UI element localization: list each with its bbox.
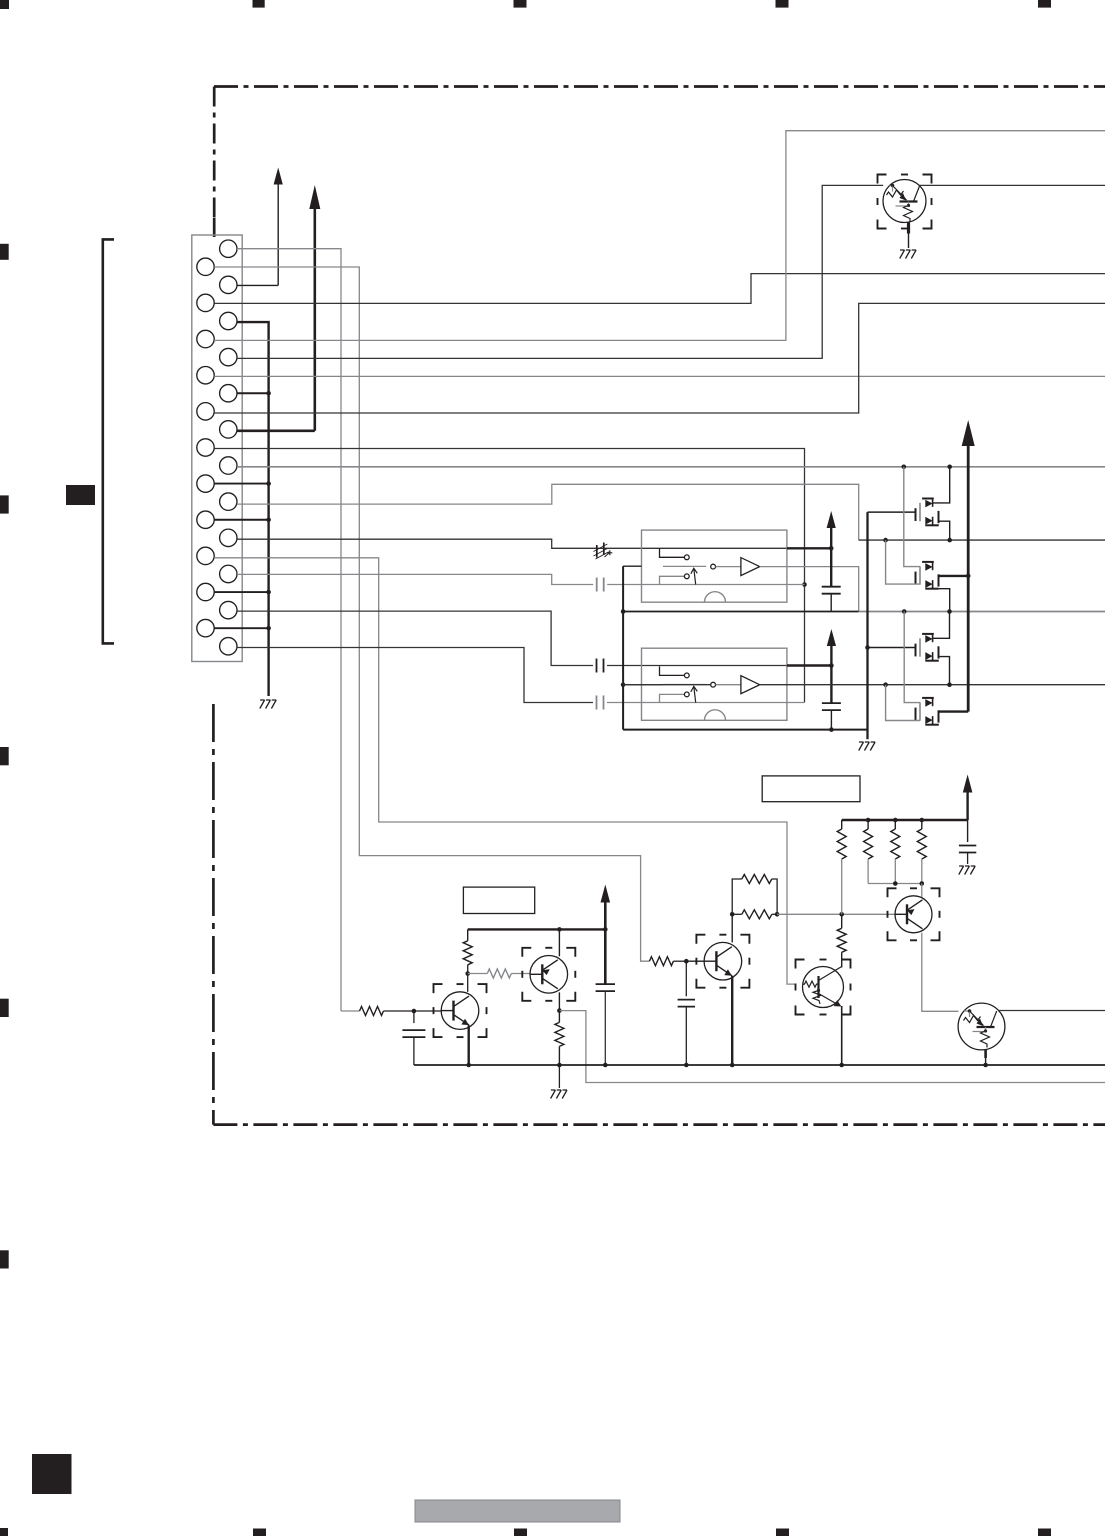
capacitor C11 on pin19 wire — [597, 578, 604, 592]
Q3 collector junction — [557, 992, 562, 1013]
feedback resistor R26 (upper) — [732, 875, 777, 915]
digital transistor Q1 — [883, 180, 926, 223]
busA junction dots — [902, 465, 953, 470]
trimmer capacitor CT1 on pin17 wire — [594, 543, 613, 560]
capacitor C34 beside bias rail — [959, 820, 976, 864]
Q14 upper lead from lower bus via left rail — [904, 612, 920, 703]
relay block bottom rail — [623, 729, 867, 731]
Q1 bracket — [878, 175, 932, 229]
resistor R28 (bias 1) — [837, 820, 846, 859]
wire pin2 to R24 path — [214, 267, 649, 961]
page registration mark top 3 — [514, 0, 527, 8]
page registration mark top-left corner — [0, 0, 9, 9]
supply arrow above RL2 output — [827, 629, 836, 703]
R28 lead down to R27 node — [841, 859, 843, 914]
ground symbol below Q1 — [900, 250, 916, 259]
Q12 lower-left lead from mid rail — [886, 540, 920, 584]
bias rail (thick) with supply arrow — [842, 775, 973, 823]
capacitor C22 on pin23 wire — [597, 696, 604, 710]
wire pin4 to right edge — [214, 274, 1105, 304]
Q4 emitter to ground rail (thick) — [730, 976, 735, 1067]
Q2 bracket — [434, 984, 487, 1037]
RL2 supply output segment (thick) — [787, 664, 832, 666]
Q11 gate lead — [868, 511, 916, 513]
H-bridge mid rail 2 to right edge — [623, 682, 1105, 687]
supply arrow above RL1 output — [827, 511, 836, 587]
assembly boundary frame left edge upper — [213, 87, 216, 238]
resistor R21 on pin1 wire — [341, 1007, 416, 1016]
wire pin13 H-bridge upper supply bus — [237, 466, 1105, 468]
transistor Q6 (PNP) — [895, 896, 932, 933]
wire pin8 to right edge — [214, 375, 1105, 377]
wire R21 junction to Q2 base — [414, 1010, 441, 1012]
Q1 collector wire to right edge — [919, 184, 1105, 186]
resistor R30 (bias 3) — [891, 820, 900, 884]
gray footer label bar — [415, 1500, 620, 1522]
resistor R31 (bias 4) — [917, 820, 926, 884]
page registration mark left 3 — [0, 747, 9, 765]
supply arrow from pin3 — [237, 168, 283, 286]
ground symbol below gate bus — [859, 742, 875, 751]
bias resistor common wire — [868, 881, 924, 897]
feedback resistor R27 (lower) — [732, 910, 779, 919]
page registration mark left 1 — [0, 244, 9, 260]
C23 lower lead to rail — [829, 710, 834, 732]
relay driver block RL1 — [642, 530, 787, 602]
connector CN1 pins 1-23 — [197, 240, 237, 655]
page registration mark top 5 — [1038, 0, 1051, 8]
left return wire of relay blocks — [621, 566, 642, 729]
Q11 drain lead from busA — [933, 467, 950, 503]
resistor R23 Q2-Q3 coupling — [468, 969, 530, 978]
capacitor C31 below R21 — [402, 1011, 425, 1065]
transistor Q3 (PNP) — [530, 956, 568, 994]
wire pin1 to R21 (audio in left) — [237, 249, 341, 1011]
Q1 emitter to ground — [907, 223, 910, 249]
assembly boundary frame left edge lower — [212, 704, 215, 1125]
digital transistor Q5 (driver) — [803, 967, 844, 1008]
supply arrow from pin11 (thick) — [237, 185, 320, 431]
wire pin15 to mid rail 1 — [237, 484, 859, 540]
motor output bus arrow (thick vertical) — [962, 420, 975, 712]
assembly boundary frame bottom edge — [213, 1123, 1105, 1126]
wire pin23 to relay block2 lower input — [237, 648, 805, 703]
label box LB1 — [463, 887, 534, 913]
resistor R22 above Q2 — [463, 929, 472, 964]
black index tab square bottom-left — [32, 1454, 72, 1494]
wire R27 node to Q6 base — [777, 912, 895, 917]
page registration mark top 2 — [253, 0, 265, 8]
transistor Q4 (NPN) — [704, 942, 742, 980]
ground symbol below Q3 — [551, 1090, 567, 1099]
Q2 emitter to ground rail (thick) — [466, 1025, 471, 1067]
Q13 drain lead from lower bus — [933, 612, 950, 639]
Q7 through wire to right edge — [998, 1010, 1105, 1012]
Q12 source lead to lower bus — [939, 589, 950, 612]
wire pin7 to Q1 base — [237, 185, 883, 358]
Q12 gate lead to output bus (thick) — [939, 574, 971, 579]
wire pin6 to right edge — [214, 131, 1105, 341]
wire pin10 to right edge — [214, 303, 1105, 413]
positive rail of amplifier (thick) — [468, 927, 608, 932]
page registration mark top 4 — [776, 0, 789, 8]
page registration mark bottom 4 — [776, 1529, 789, 1536]
wire pin21 through relay block2 upper input — [237, 611, 831, 665]
ground bus wire from pin5 with junctions to pins 9,14,16,20,22 — [214, 322, 271, 696]
Q3 emitter to positive rail — [558, 929, 560, 956]
transistor Q2 (input NPN) — [441, 992, 479, 1030]
page registration mark left 2 — [0, 495, 9, 513]
Q2 collector vertical with junction — [465, 965, 470, 992]
Q3 ground lead below rail — [558, 1065, 560, 1088]
page registration mark left 5 — [0, 1250, 9, 1268]
relay driver block RL2 — [642, 648, 787, 720]
wire Q3 collector to lower gray bus — [559, 1011, 1105, 1083]
amplifier ground rail — [414, 1064, 1105, 1066]
wire pin18 to Q5 base path — [214, 558, 795, 984]
MOSFET pair Q11 (upper H-bridge, high side) — [916, 499, 939, 526]
Q3 bracket — [522, 948, 575, 1001]
Q4 collector vertical — [730, 912, 735, 942]
connector bracket (left square bracket) — [103, 239, 114, 643]
RL2 arm link — [623, 684, 663, 686]
resistor R29 (bias 2) — [864, 820, 873, 884]
capacitor C13 under RL1 supply arrow — [822, 587, 841, 594]
C13 lower lead to rail — [830, 594, 832, 612]
wire pin19 through relay block1 lower input — [237, 574, 805, 584]
Q12 upper lead from busA via left rail — [904, 467, 920, 567]
resistor R24 to Q4 base — [649, 957, 704, 966]
MOSFET pair Q12 (upper H-bridge, low side) — [916, 562, 939, 589]
page registration mark bottom 3 — [514, 1529, 527, 1536]
Q13 gate lead — [865, 645, 915, 650]
RL1 supply output segment (thick) — [787, 547, 831, 549]
black section marker box left — [66, 485, 95, 505]
wire pin12 down right side of relay blocks — [214, 449, 807, 703]
Q6 bracket — [888, 888, 940, 940]
Q7 emitter lead to ground rail — [983, 1050, 988, 1067]
capacitor C23 under RL2 supply arrow — [822, 703, 841, 710]
capacitor C32 on supply arrow — [596, 984, 615, 1067]
Q6 collector to Q7 base — [922, 933, 959, 1012]
resistor R32 above Q5 — [837, 914, 846, 967]
H-bridge mid rail 1 to right edge — [859, 538, 1105, 543]
Q5 bracket — [796, 960, 851, 1015]
H-bridge gate bus vertical — [866, 512, 868, 739]
wire pin17 through relay block1 to supply node — [237, 539, 831, 548]
Q4 bracket — [696, 935, 749, 988]
Q11 source lead to mid rail — [939, 521, 950, 540]
digital transistor Q7 — [958, 1003, 1005, 1050]
page registration mark left 4 — [0, 999, 9, 1017]
connector CN1 body — [192, 235, 242, 662]
MOSFET pair Q13 (lower H-bridge, high side) — [916, 634, 939, 661]
Q14 gate lead to output bus end (thick) — [939, 710, 969, 712]
Q5 emitter to ground rail — [839, 1006, 844, 1067]
capacitor C21 on pin21 wire — [597, 659, 604, 673]
assembly boundary frame top edge — [214, 85, 1105, 88]
capacitor C33 below Q4 base — [678, 961, 695, 1067]
RL1 output wire to H-bridge lower bus — [760, 567, 859, 612]
page registration mark bottom 5 — [1038, 1529, 1051, 1536]
supply arrow of amplifier section — [601, 885, 611, 985]
ground symbol below connector — [260, 700, 276, 709]
H-bridge lower supply bus — [623, 609, 1105, 614]
resistor R25 below Q3 — [555, 1011, 564, 1068]
label box LB2 — [762, 776, 860, 802]
ground symbol below C34 — [959, 866, 975, 875]
page registration mark bottom 2 — [253, 1529, 266, 1536]
page registration mark bottom-left corner — [0, 1528, 8, 1536]
MOSFET pair Q14 (lower H-bridge, low side) — [916, 698, 939, 725]
Q14 lower-left lead from mid rail 2 — [886, 685, 920, 721]
Q13 source lead to mid rail 2 — [939, 657, 950, 685]
